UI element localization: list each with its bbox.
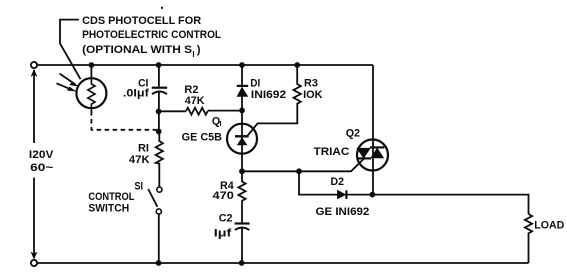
svg-text:RI: RI: [138, 142, 149, 154]
resistor LOAD zigzag: [525, 214, 532, 263]
wire D2 to TRIAC bottom: [346, 194, 372, 196]
node dot TRIAC bottom: [370, 192, 376, 198]
node dot R2 left: [156, 109, 162, 115]
wire D2 branch down: [299, 171, 337, 194]
wire Q1 cathode to gate node: [242, 170, 299, 172]
wire left vertical upper segment: [33, 70, 35, 143]
svg-text:47K: 47K: [185, 95, 205, 107]
resistor R3 zigzag: [294, 65, 301, 105]
wire photocell top stub: [90, 65, 92, 78]
diode D1 triangle: [237, 87, 248, 96]
svg-text:Q2: Q2: [346, 127, 360, 139]
svg-text:TRIAC: TRIAC: [314, 146, 350, 158]
capacitor C2 top plate: [235, 222, 250, 224]
svg-text:GE INI692: GE INI692: [316, 206, 370, 218]
svg-text:470: 470: [213, 190, 234, 202]
wire S1 to bottom rail: [158, 214, 160, 263]
node dot dashed link: [156, 129, 162, 135]
wire R2 left lead: [159, 110, 186, 112]
photocell PC1 internal zigzag: [88, 79, 95, 109]
resistor R4 zigzag: [238, 171, 245, 204]
SCR Q1 cathode bar: [235, 135, 249, 137]
svg-text:.0Iμf: .0Iμf: [123, 88, 149, 100]
svg-text:IOK: IOK: [303, 89, 323, 101]
node dot C1 top: [156, 62, 162, 68]
svg-text:I20V: I20V: [29, 149, 54, 161]
switch S1 top contact: [157, 187, 162, 192]
switch S1 lever: [148, 189, 157, 207]
wire top rail: [37, 64, 373, 66]
triac Q2 circle: [357, 140, 388, 171]
resistor R1 zigzag: [156, 131, 163, 187]
svg-text:DI: DI: [250, 78, 260, 90]
wire Q1 gate diagonal and run to R3: [248, 105, 298, 136]
svg-text:I: I: [192, 50, 194, 59]
diode D2 cathode bar: [345, 190, 347, 199]
triac Q2 left triangle (down): [357, 148, 371, 158]
wire C1 to node: [158, 92, 160, 131]
light arrow 1: [60, 74, 75, 85]
wire TRIAC main vertical: [372, 65, 374, 195]
node dot D1 top: [239, 62, 245, 68]
svg-text:LOAD: LOAD: [534, 220, 564, 232]
node dot photocell top: [89, 62, 95, 68]
label leader bracket to photocell: [60, 20, 81, 80]
diode D1 cathode bar: [237, 85, 248, 87]
triac Q2 bottom bar: [357, 157, 371, 159]
svg-text:60~: 60~: [30, 162, 53, 174]
triac Q2 top bar: [370, 146, 384, 148]
svg-text:): ): [197, 44, 201, 56]
svg-text:CONTROL: CONTROL: [88, 191, 134, 203]
wire dashed photocell option link: [91, 111, 156, 130]
svg-text:SWITCH: SWITCH: [88, 203, 129, 215]
wire C2 to bottom rail: [241, 228, 243, 263]
speck above text: [161, 7, 163, 9]
node dot R3 top: [294, 62, 300, 68]
svg-text:INI692: INI692: [251, 89, 286, 101]
wire D1 branch upper: [241, 65, 243, 86]
svg-text:(OPTIONAL WITH S: (OPTIONAL WITH S: [82, 44, 192, 56]
capacitor C1 curved plate: [152, 92, 167, 95]
wire C1 branch upper: [158, 65, 160, 87]
wire TRIAC gate: [299, 159, 364, 172]
triac Q2 right triangle (up): [371, 148, 384, 158]
node dot Q1 cathode: [239, 168, 245, 174]
arrow down (source polarity): [31, 252, 37, 259]
svg-text:SI: SI: [135, 181, 144, 193]
photocell PC1 circle: [76, 78, 106, 108]
wire D1 to node: [241, 96, 243, 110]
resistor R2 zigzag: [186, 108, 208, 115]
svg-text:D2: D2: [331, 176, 345, 188]
svg-text:GE C5B: GE C5B: [182, 132, 222, 144]
SCR Q1 triangle: [237, 138, 247, 145]
svg-text:PHOTOELECTRIC CONTROL: PHOTOELECTRIC CONTROL: [82, 29, 221, 41]
terminal top-left open circle: [31, 62, 37, 68]
capacitor C2 curved plate: [235, 228, 249, 230]
svg-text:R3: R3: [304, 78, 318, 90]
light arrow 2: [57, 83, 73, 90]
wire photocell bottom stub: [90, 108, 92, 113]
diode D2 triangle: [337, 190, 345, 199]
wire bottom rail: [37, 262, 528, 264]
node dot S1 bottom rail: [156, 260, 162, 266]
svg-text:I: I: [220, 119, 222, 128]
svg-text:C2: C2: [219, 212, 233, 224]
node dot R2 right: [239, 108, 245, 114]
svg-text:CDS PHOTOCELL FOR: CDS PHOTOCELL FOR: [82, 15, 201, 27]
capacitor C1 top plate: [152, 87, 167, 89]
node dot gate branch: [296, 168, 302, 174]
node dot C2 bottom rail: [239, 260, 245, 266]
wire R2 right lead: [208, 110, 242, 112]
svg-text:Iμf: Iμf: [214, 228, 232, 240]
wire Q1 vertical through: [241, 110, 243, 171]
svg-text:47K: 47K: [129, 154, 150, 166]
wire left vertical lower segment: [33, 178, 35, 255]
SCR Q1 circle: [227, 124, 257, 154]
wire to LOAD: [372, 195, 528, 214]
arrow up (source polarity): [31, 70, 37, 77]
terminal bottom-left open circle: [31, 260, 37, 266]
switch S1 bottom contact: [156, 209, 161, 214]
wire R4 to C2: [241, 205, 243, 223]
